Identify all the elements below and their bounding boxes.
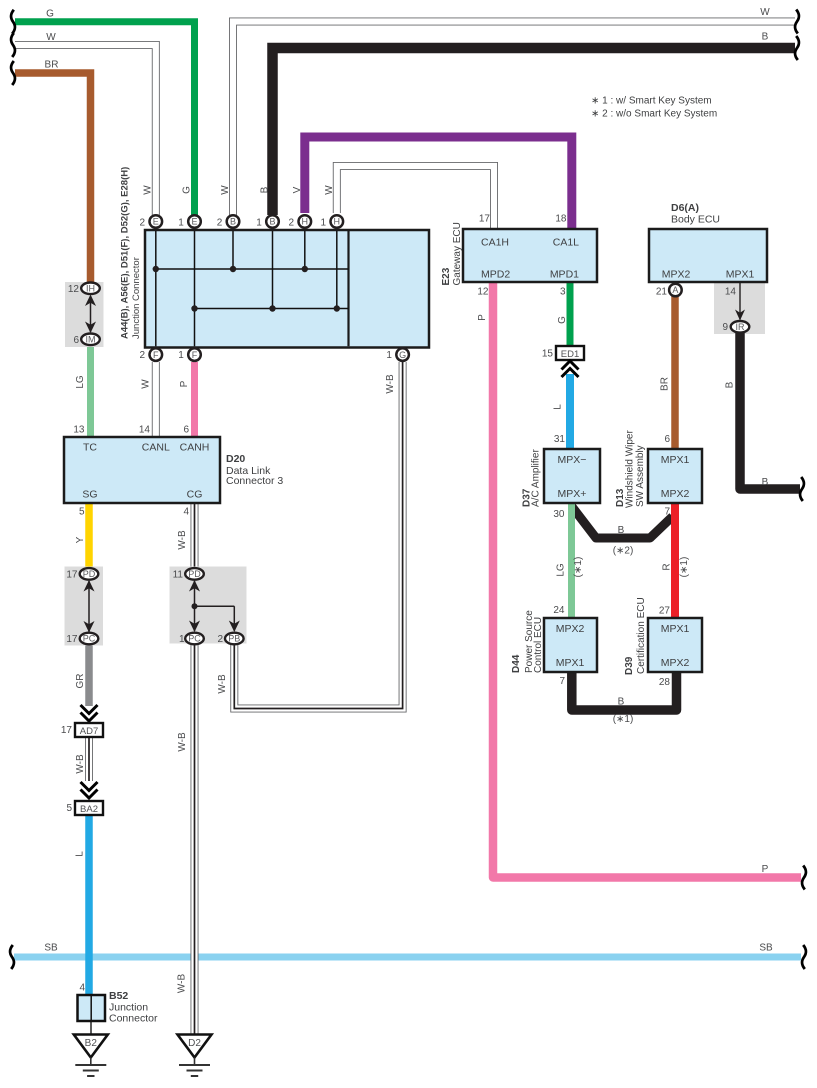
svg-text:15: 15 <box>542 349 554 360</box>
svg-text:B: B <box>762 32 769 43</box>
svg-text:SG: SG <box>82 489 97 501</box>
svg-text:SB: SB <box>759 943 773 954</box>
svg-text:F: F <box>153 350 159 360</box>
svg-text:D39: D39 <box>624 656 635 675</box>
svg-text:MPX1: MPX1 <box>661 454 690 466</box>
svg-text:IR: IR <box>736 322 746 332</box>
svg-text:BR: BR <box>660 377 671 391</box>
svg-text:MPX2: MPX2 <box>661 657 690 669</box>
svg-text:B: B <box>269 217 275 227</box>
svg-text:(∗1): (∗1) <box>679 557 690 578</box>
svg-text:6: 6 <box>664 434 670 445</box>
svg-text:W: W <box>324 185 335 195</box>
svg-text:W-B: W-B <box>177 732 188 752</box>
svg-text:B52: B52 <box>109 990 128 1002</box>
svg-text:CA1L: CA1L <box>553 237 579 249</box>
svg-text:14: 14 <box>139 425 151 436</box>
svg-text:IM: IM <box>86 335 96 345</box>
svg-text:MPX1: MPX1 <box>726 269 755 281</box>
svg-text:CG: CG <box>187 489 203 501</box>
svg-text:1: 1 <box>386 350 392 361</box>
svg-text:2: 2 <box>217 217 223 228</box>
svg-text:1: 1 <box>256 217 262 228</box>
svg-text:CANH: CANH <box>180 442 210 454</box>
svg-text:B: B <box>725 381 736 388</box>
svg-text:H: H <box>302 217 309 227</box>
svg-text:∗ 2 : w/o Smart Key System: ∗ 2 : w/o Smart Key System <box>591 109 717 120</box>
svg-text:MPD1: MPD1 <box>550 269 579 281</box>
svg-text:Connector: Connector <box>109 1013 158 1025</box>
svg-text:12: 12 <box>68 284 80 295</box>
svg-text:2: 2 <box>140 217 146 228</box>
svg-text:V: V <box>292 186 303 193</box>
svg-text:W: W <box>46 32 56 43</box>
svg-text:PC: PC <box>83 634 96 644</box>
svg-text:B: B <box>230 217 236 227</box>
svg-text:L: L <box>553 404 564 410</box>
svg-text:P: P <box>179 380 190 387</box>
svg-text:BR: BR <box>45 60 59 71</box>
svg-text:W-B: W-B <box>177 530 188 550</box>
svg-text:W: W <box>141 379 152 389</box>
svg-text:1: 1 <box>178 350 184 361</box>
svg-text:Y: Y <box>75 536 86 543</box>
svg-text:CA1H: CA1H <box>481 237 509 249</box>
svg-text:4: 4 <box>79 983 85 994</box>
svg-text:D2: D2 <box>188 1038 201 1049</box>
svg-text:3: 3 <box>560 287 566 298</box>
svg-text:11: 11 <box>173 570 184 581</box>
svg-text:BA2: BA2 <box>80 804 98 815</box>
svg-text:D44: D44 <box>511 654 522 673</box>
svg-text:MPX2: MPX2 <box>662 269 691 281</box>
svg-text:MPX1: MPX1 <box>556 657 585 669</box>
svg-text:G: G <box>182 186 193 194</box>
svg-text:D6(A): D6(A) <box>671 202 699 214</box>
svg-text:Connector 3: Connector 3 <box>226 475 283 487</box>
svg-text:G: G <box>399 350 406 360</box>
svg-text:Body ECU: Body ECU <box>671 214 720 226</box>
svg-text:9: 9 <box>722 322 728 333</box>
svg-text:(∗1): (∗1) <box>613 714 634 725</box>
svg-text:24: 24 <box>553 605 565 616</box>
svg-text:∗ 1 : w/ Smart Key System: ∗ 1 : w/ Smart Key System <box>591 96 712 107</box>
svg-text:1: 1 <box>321 217 327 228</box>
svg-text:SB: SB <box>44 943 58 954</box>
svg-text:W-B: W-B <box>217 674 228 694</box>
svg-text:W: W <box>760 7 770 18</box>
svg-text:5: 5 <box>79 507 85 518</box>
svg-text:6: 6 <box>73 335 79 346</box>
svg-text:Gateway ECU: Gateway ECU <box>452 222 463 285</box>
svg-text:Control ECU: Control ECU <box>533 617 544 673</box>
svg-text:17: 17 <box>66 634 78 645</box>
svg-text:G: G <box>557 316 568 324</box>
svg-text:W-B: W-B <box>75 754 86 774</box>
svg-text:H: H <box>334 217 341 227</box>
svg-text:R: R <box>662 563 673 570</box>
svg-text:2: 2 <box>140 350 146 361</box>
svg-text:TC: TC <box>83 442 97 454</box>
svg-text:Certification ECU: Certification ECU <box>636 597 647 674</box>
svg-text:5: 5 <box>66 803 72 814</box>
svg-text:MPX1: MPX1 <box>661 623 690 635</box>
svg-text:W: W <box>220 185 231 195</box>
svg-text:12: 12 <box>477 287 489 298</box>
svg-text:W: W <box>143 185 154 195</box>
svg-text:7: 7 <box>559 676 565 687</box>
svg-text:E: E <box>191 217 197 227</box>
svg-text:B: B <box>260 186 271 193</box>
svg-text:1: 1 <box>179 634 185 645</box>
svg-text:17: 17 <box>61 725 73 736</box>
svg-text:2: 2 <box>289 217 295 228</box>
svg-text:7: 7 <box>664 507 670 518</box>
svg-text:13: 13 <box>73 425 85 436</box>
svg-text:PD: PD <box>188 569 201 579</box>
svg-text:B: B <box>618 525 625 536</box>
svg-text:A/C Amplifier: A/C Amplifier <box>531 449 542 507</box>
svg-text:CANL: CANL <box>142 442 170 454</box>
svg-text:14: 14 <box>725 287 737 298</box>
svg-text:6: 6 <box>183 425 189 436</box>
svg-text:PC: PC <box>188 634 201 644</box>
svg-text:B2: B2 <box>85 1038 98 1049</box>
svg-text:4: 4 <box>183 507 189 518</box>
svg-text:W-B: W-B <box>177 974 188 994</box>
svg-text:30: 30 <box>553 509 565 520</box>
svg-text:A44(B), A56(E), D51(F), D52(G): A44(B), A56(E), D51(F), D52(G), E28(H) <box>120 167 131 339</box>
svg-text:31: 31 <box>554 434 566 445</box>
svg-text:PD: PD <box>83 569 96 579</box>
svg-text:28: 28 <box>659 677 671 688</box>
svg-text:1: 1 <box>178 217 184 228</box>
svg-text:Windshield Wiper: Windshield Wiper <box>625 430 636 508</box>
svg-text:B: B <box>618 697 625 708</box>
svg-text:ED1: ED1 <box>561 349 579 360</box>
svg-text:D20: D20 <box>226 453 245 465</box>
svg-text:LG: LG <box>556 563 567 577</box>
svg-text:MPX−: MPX− <box>558 454 587 466</box>
svg-text:A: A <box>672 285 678 295</box>
svg-text:18: 18 <box>555 214 567 225</box>
svg-text:(∗1): (∗1) <box>573 557 584 578</box>
svg-text:Junction Connector: Junction Connector <box>131 257 142 339</box>
svg-text:21: 21 <box>656 287 668 298</box>
svg-text:27: 27 <box>659 606 671 617</box>
svg-text:IH: IH <box>86 284 95 294</box>
svg-text:AD7: AD7 <box>80 726 98 737</box>
svg-text:E23: E23 <box>441 267 452 285</box>
svg-text:17: 17 <box>479 214 491 225</box>
svg-text:LG: LG <box>75 375 86 389</box>
svg-text:W-B: W-B <box>385 374 396 394</box>
svg-text:E: E <box>153 217 159 227</box>
svg-text:MPX2: MPX2 <box>556 623 585 635</box>
svg-text:B: B <box>762 477 769 488</box>
svg-text:P: P <box>762 864 769 875</box>
svg-text:P: P <box>477 314 488 321</box>
svg-text:PB: PB <box>228 634 240 644</box>
svg-text:(∗2): (∗2) <box>613 546 634 557</box>
svg-text:G: G <box>46 9 54 20</box>
svg-text:F: F <box>192 350 198 360</box>
svg-text:MPX+: MPX+ <box>558 488 587 500</box>
svg-text:MPX2: MPX2 <box>661 488 690 500</box>
svg-text:SW Assembly: SW Assembly <box>635 445 646 507</box>
svg-text:17: 17 <box>66 570 78 581</box>
svg-text:GR: GR <box>75 674 86 689</box>
svg-text:MPD2: MPD2 <box>481 269 510 281</box>
svg-text:2: 2 <box>217 634 223 645</box>
svg-text:L: L <box>75 851 86 857</box>
